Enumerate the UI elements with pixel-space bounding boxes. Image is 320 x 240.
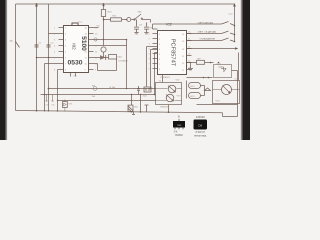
svg-text:5100: 5100 <box>80 36 87 51</box>
svg-text:ОХЛАЖДЕНИЕ: ОХЛАЖДЕНИЕ <box>200 38 216 41</box>
svg-text:СВЕТ. СВ.ДИОДЫ: СВЕТ. СВ.ДИОДЫ <box>198 32 217 34</box>
svg-text:D8: D8 <box>198 123 202 127</box>
svg-text:BQ: BQ <box>135 107 138 109</box>
svg-text:BR1005: BR1005 <box>161 107 170 109</box>
svg-text:внешн.вид: внешн.вид <box>194 135 206 138</box>
svg-text:PCF8574: PCF8574 <box>161 77 171 79</box>
svg-text:0530: 0530 <box>67 60 82 67</box>
svg-text:DS18B20: DS18B20 <box>119 61 129 63</box>
svg-text:PCF8574T: PCF8574T <box>170 39 176 67</box>
svg-text:R 10k: R 10k <box>110 87 117 89</box>
svg-text:12F629: 12F629 <box>196 115 205 119</box>
svg-text:Б: Б <box>178 115 180 119</box>
svg-text:СВЕТОДИОДЫ: СВЕТОДИОДЫ <box>198 23 214 25</box>
svg-text:RK: RK <box>92 85 96 87</box>
svg-text:BC846: BC846 <box>175 134 183 137</box>
svg-text:IC2: IC2 <box>166 23 172 27</box>
svg-text:I02: I02 <box>72 43 77 50</box>
